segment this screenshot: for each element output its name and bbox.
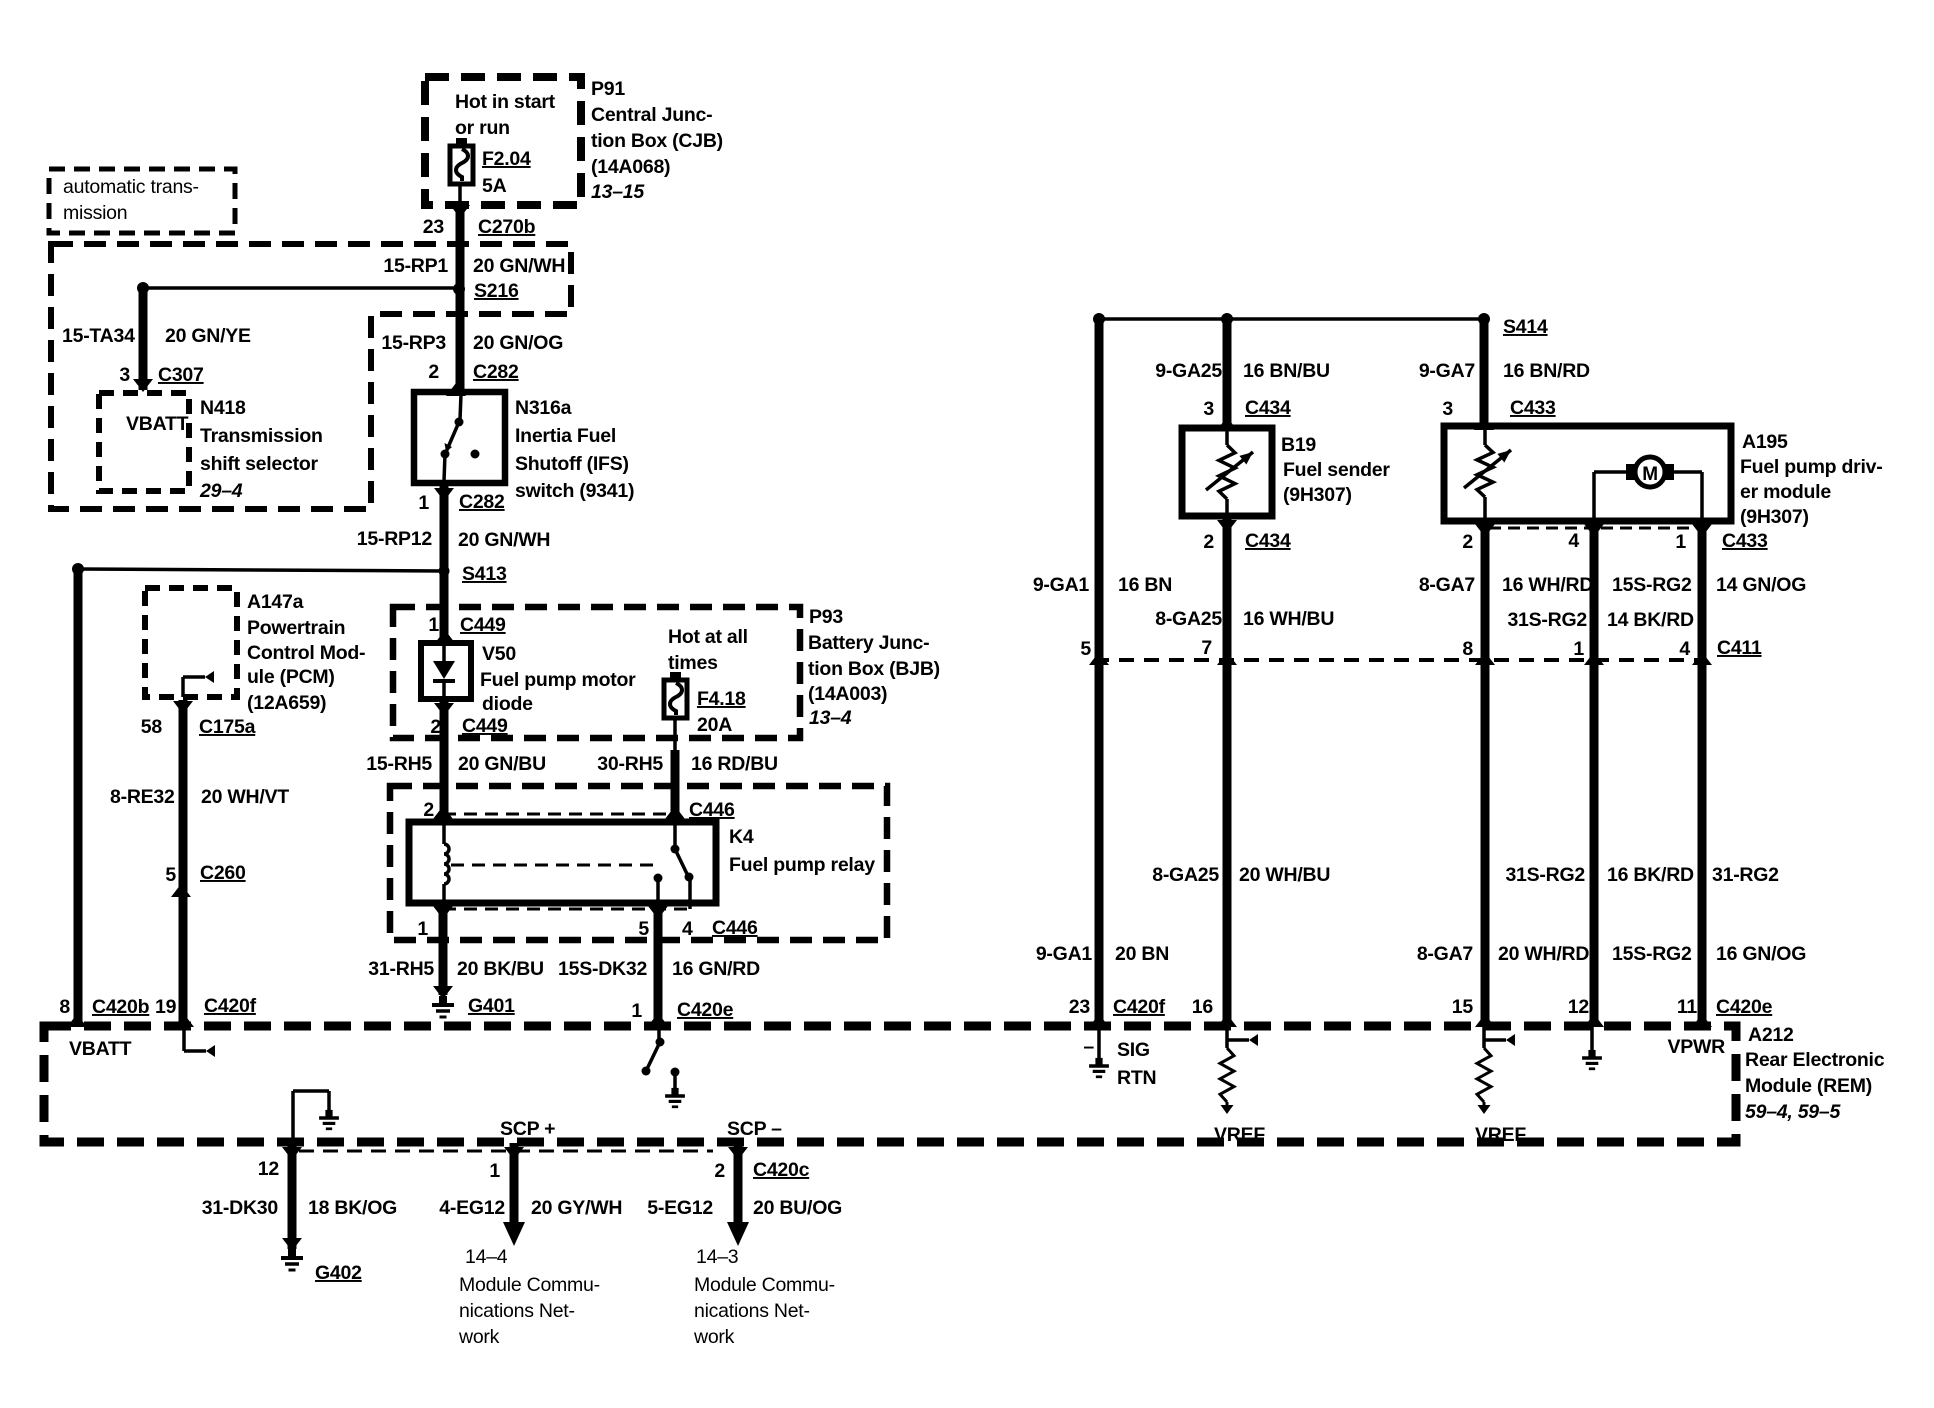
- splice S413: [439, 566, 450, 577]
- pins 2 4 1 connector C433 below A195: [1475, 524, 1495, 537]
- connector plane C411 (long dashed line): [1094, 658, 1706, 662]
- svg-text:15S-DK32: 15S-DK32: [558, 958, 647, 980]
- svg-text:20 BN: 20 BN: [1115, 943, 1169, 965]
- svg-text:S216: S216: [474, 280, 519, 302]
- svg-text:(9H307): (9H307): [1283, 484, 1352, 506]
- svg-text:3: 3: [1442, 398, 1453, 420]
- svg-text:C307: C307: [158, 364, 204, 386]
- svg-text:Transmission: Transmission: [200, 425, 323, 447]
- svg-text:N316a: N316a: [515, 397, 572, 419]
- svg-text:G401: G401: [468, 995, 515, 1017]
- svg-text:1: 1: [1573, 638, 1584, 660]
- svg-text:5: 5: [638, 918, 649, 940]
- svg-text:VBATT: VBATT: [69, 1038, 132, 1060]
- svg-text:work: work: [693, 1326, 735, 1348]
- svg-text:automatic trans-: automatic trans-: [63, 176, 199, 198]
- ground G402: [282, 1238, 302, 1251]
- svg-text:C270b: C270b: [478, 216, 536, 238]
- svg-text:4: 4: [1568, 530, 1579, 552]
- svg-text:K4: K4: [729, 826, 754, 848]
- svg-text:C434: C434: [1245, 530, 1291, 552]
- svg-text:9-GA1: 9-GA1: [1033, 574, 1090, 596]
- svg-text:C449: C449: [460, 614, 506, 636]
- wire 31-RG2 14 GN/OG 16 GN/OG to REM pin 11 VPWR: [1698, 521, 1707, 1026]
- svg-text:12: 12: [258, 1158, 280, 1180]
- svg-text:A147a: A147a: [247, 591, 304, 613]
- pin 2 connector C446 top of relay: [433, 806, 453, 819]
- svg-text:Fuel sender: Fuel sender: [1283, 459, 1390, 481]
- svg-text:15S-RG2: 15S-RG2: [1612, 574, 1692, 596]
- svg-text:20 WH/VT: 20 WH/VT: [201, 786, 289, 808]
- svg-text:C433: C433: [1510, 397, 1556, 419]
- inertia fuel shutoff switch N316a: [414, 392, 505, 483]
- svg-text:23: 23: [1069, 996, 1091, 1018]
- svg-text:8-GA7: 8-GA7: [1419, 574, 1475, 596]
- svg-text:9-GA7: 9-GA7: [1419, 360, 1475, 382]
- REM internal ground circuit for pin 12: [291, 1091, 295, 1143]
- svg-text:29–4: 29–4: [199, 480, 243, 502]
- svg-text:31S-RG2: 31S-RG2: [1505, 864, 1585, 886]
- svg-text:C420b: C420b: [92, 996, 150, 1018]
- svg-text:1: 1: [631, 1000, 642, 1022]
- svg-text:P91: P91: [591, 78, 625, 100]
- REM internal VREF resistor right: [1484, 1038, 1506, 1042]
- svg-text:C420e: C420e: [1716, 996, 1773, 1018]
- battery junction box P93 (dashed, relay): [390, 786, 887, 940]
- svg-text:A212: A212: [1748, 1024, 1794, 1046]
- svg-text:2: 2: [1203, 531, 1214, 553]
- svg-text:16 RD/BU: 16 RD/BU: [691, 753, 778, 775]
- svg-text:SCP –: SCP –: [727, 1118, 782, 1140]
- svg-text:16 WH/BU: 16 WH/BU: [1243, 608, 1334, 630]
- REM internal SIG RTN ground: [1097, 1026, 1101, 1062]
- svg-text:1: 1: [417, 918, 428, 940]
- svg-text:(14A068): (14A068): [591, 156, 670, 178]
- svg-text:Fuel pump driv-: Fuel pump driv-: [1740, 456, 1883, 478]
- svg-text:P93: P93: [809, 606, 843, 628]
- svg-text:2: 2: [714, 1160, 725, 1182]
- svg-text:F2.04: F2.04: [482, 148, 531, 170]
- svg-text:31-RH5: 31-RH5: [368, 958, 434, 980]
- svg-text:C420f: C420f: [204, 995, 257, 1017]
- svg-text:15-TA34: 15-TA34: [62, 325, 135, 347]
- svg-text:switch (9341): switch (9341): [515, 480, 634, 502]
- svg-text:SIG: SIG: [1117, 1039, 1150, 1061]
- connector plane C446 bottom (dashed): [443, 908, 690, 911]
- PCM internal flag symbol: [181, 677, 185, 697]
- svg-text:20A: 20A: [697, 714, 732, 736]
- pin 1 connector C282 below IFS: [434, 488, 454, 501]
- svg-text:tion Box (CJB): tion Box (CJB): [591, 130, 723, 152]
- svg-text:C282: C282: [473, 361, 519, 383]
- svg-text:8-GA25: 8-GA25: [1152, 864, 1219, 886]
- svg-text:20 WH/BU: 20 WH/BU: [1239, 864, 1330, 886]
- label box automatic transmission (dashed): [49, 169, 235, 233]
- svg-text:Module (REM): Module (REM): [1745, 1075, 1872, 1097]
- svg-text:C446: C446: [712, 917, 758, 939]
- svg-text:C282: C282: [459, 491, 505, 513]
- wire S413 to diode: [440, 572, 449, 643]
- A195 fuel pump motor M: [1635, 457, 1665, 487]
- connector C446 label top: [665, 806, 685, 819]
- wire 15S-RG2 14 BK/RD 16 BK/RD to REM pin 12: [1590, 521, 1599, 1026]
- svg-text:16: 16: [1192, 996, 1214, 1018]
- svg-text:16 BN/BU: 16 BN/BU: [1243, 360, 1330, 382]
- relay terminal 5 stub: [654, 874, 663, 883]
- svg-text:8: 8: [59, 996, 70, 1018]
- svg-text:or run: or run: [455, 117, 510, 139]
- svg-text:8-RE32: 8-RE32: [110, 786, 175, 808]
- svg-text:G402: G402: [315, 1262, 362, 1284]
- wire 9-GA25 16 BN/BU to fuel sender: [1223, 319, 1232, 430]
- fuel pump relay K4: [409, 822, 716, 903]
- svg-text:15-RH5: 15-RH5: [366, 753, 432, 775]
- svg-text:20 GY/WH: 20 GY/WH: [531, 1197, 622, 1219]
- svg-text:2: 2: [423, 799, 434, 821]
- svg-text:12: 12: [1568, 996, 1590, 1018]
- dashed group outline (automatic transmission circuit): [51, 244, 571, 509]
- pin 1 connector C420e: [648, 1013, 668, 1026]
- svg-text:S413: S413: [462, 563, 507, 585]
- connector plane C446 (dashed): [443, 813, 675, 816]
- svg-text:4: 4: [682, 918, 693, 940]
- svg-text:15-RP3: 15-RP3: [381, 332, 446, 354]
- svg-text:1: 1: [489, 1160, 500, 1182]
- svg-text:Module Commu-: Module Commu-: [694, 1274, 835, 1296]
- svg-text:5-EG12: 5-EG12: [647, 1197, 713, 1219]
- svg-text:Central Junc-: Central Junc-: [591, 104, 712, 126]
- pin 1 connector C446 bottom: [433, 906, 453, 919]
- svg-text:31-RG2: 31-RG2: [1712, 864, 1779, 886]
- wire 8-GA25 16 WH/BU / 20 WH/BU to REM pin 16: [1223, 516, 1232, 1026]
- svg-text:9-GA25: 9-GA25: [1155, 360, 1222, 382]
- svg-text:VREF: VREF: [1475, 1124, 1526, 1146]
- wire 31-RH5 20 BK/BU to G401: [439, 903, 448, 995]
- svg-text:work: work: [458, 1326, 500, 1348]
- svg-text:5: 5: [165, 864, 176, 886]
- svg-text:3: 3: [119, 364, 130, 386]
- svg-text:15S-RG2: 15S-RG2: [1612, 943, 1692, 965]
- wire 9-GA7 16 BN/RD to fuel pump driver module: [1480, 319, 1489, 430]
- svg-text:19: 19: [155, 996, 177, 1018]
- svg-text:59–4, 59–5: 59–4, 59–5: [1745, 1101, 1842, 1123]
- connector plane C433 below A195 (dashed): [1489, 527, 1588, 530]
- svg-text:Inertia Fuel: Inertia Fuel: [515, 425, 616, 447]
- wire 15S-DK32 16 GN/RD relay to REM: [648, 906, 668, 919]
- wire 8-GA7 16 WH/RD / 20 WH/RD to REM pin 15: [1481, 521, 1490, 1026]
- REM pin 19 internal flag: [182, 1026, 186, 1051]
- svg-text:15-RP1: 15-RP1: [383, 255, 448, 277]
- svg-text:11: 11: [1677, 996, 1698, 1018]
- svg-text:3: 3: [1203, 398, 1214, 420]
- svg-text:5A: 5A: [482, 175, 507, 197]
- svg-text:C175a: C175a: [199, 716, 256, 738]
- svg-text:(12A659): (12A659): [247, 692, 326, 714]
- svg-text:tion Box (BJB): tion Box (BJB): [808, 658, 940, 680]
- pin 58 connector C175a: [173, 701, 193, 714]
- wire 15-RP1 20 GN/WH from fuse to S216: [458, 183, 462, 207]
- svg-text:20 WH/RD: 20 WH/RD: [1498, 943, 1589, 965]
- svg-text:16 GN/RD: 16 GN/RD: [672, 958, 760, 980]
- splice S414 bus wire: [1099, 317, 1484, 321]
- svg-text:C434: C434: [1245, 397, 1291, 419]
- powertrain control module A147a (dashed box): [145, 588, 237, 697]
- svg-text:16 BK/RD: 16 BK/RD: [1607, 864, 1694, 886]
- svg-text:F4.18: F4.18: [697, 688, 746, 710]
- relay mechanical link (dashed): [451, 864, 655, 867]
- svg-text:14 GN/OG: 14 GN/OG: [1716, 574, 1806, 596]
- svg-text:Module Commu-: Module Commu-: [459, 1274, 600, 1296]
- svg-text:C420c: C420c: [753, 1159, 810, 1181]
- svg-text:14–4: 14–4: [465, 1246, 508, 1268]
- A195 sender resistor: [1483, 426, 1487, 445]
- svg-text:Control Mod-: Control Mod-: [247, 642, 365, 664]
- fuel pump motor diode V50: [421, 643, 471, 699]
- svg-text:Hot in start: Hot in start: [455, 91, 556, 113]
- svg-text:er module: er module: [1740, 481, 1831, 503]
- svg-text:VBATT: VBATT: [126, 413, 189, 435]
- svg-text:4-EG12: 4-EG12: [439, 1197, 505, 1219]
- svg-text:2: 2: [428, 361, 439, 383]
- svg-text:13–15: 13–15: [591, 181, 645, 203]
- svg-text:M: M: [1642, 464, 1658, 485]
- svg-text:16 GN/OG: 16 GN/OG: [1716, 943, 1806, 965]
- relay coil: [442, 822, 446, 844]
- wire 15-RP12 20 GN/WH from IFS to S413: [440, 483, 449, 572]
- svg-text:15-RP12: 15-RP12: [357, 528, 433, 550]
- svg-text:S414: S414: [1503, 316, 1548, 338]
- svg-text:23: 23: [423, 216, 445, 238]
- wire VBATT to REM pin 8: [74, 569, 83, 1026]
- svg-text:C411: C411: [1717, 637, 1762, 659]
- svg-text:31S-RG2: 31S-RG2: [1507, 609, 1587, 631]
- svg-text:4: 4: [1679, 638, 1690, 660]
- svg-text:A195: A195: [1742, 431, 1788, 453]
- svg-text:5: 5: [1080, 638, 1091, 660]
- svg-text:C420e: C420e: [677, 999, 734, 1021]
- svg-text:16 BN/RD: 16 BN/RD: [1503, 360, 1590, 382]
- fuel pump driver module A195: [1444, 426, 1731, 521]
- svg-text:C446: C446: [689, 799, 735, 821]
- svg-text:31-DK30: 31-DK30: [202, 1197, 279, 1219]
- pin 2 connector C449 below diode: [434, 703, 454, 716]
- svg-text:20 GN/WH: 20 GN/WH: [458, 529, 550, 551]
- svg-text:B19: B19: [1281, 434, 1316, 456]
- svg-text:times: times: [668, 652, 718, 674]
- wire 15-RH5 20 GN/BU: [440, 699, 449, 824]
- svg-text:C433: C433: [1722, 530, 1768, 552]
- svg-text:(14A003): (14A003): [808, 683, 887, 705]
- connector plane C420c (dashed): [299, 1150, 713, 1153]
- svg-text:Powertrain: Powertrain: [247, 617, 345, 639]
- wire from S413 to VBATT branch: [78, 569, 444, 571]
- svg-text:Fuel pump motor: Fuel pump motor: [480, 669, 636, 691]
- svg-text:20 BK/BU: 20 BK/BU: [457, 958, 544, 980]
- svg-text:20 GN/YE: 20 GN/YE: [165, 325, 251, 347]
- svg-text:15: 15: [1452, 996, 1474, 1018]
- wire 31-DK30 18 BK/OG to G402: [282, 1147, 302, 1160]
- svg-text:Shutoff (IFS): Shutoff (IFS): [515, 453, 629, 475]
- svg-text:N418: N418: [200, 397, 246, 419]
- REM internal VREF resistor left: [1227, 1038, 1249, 1042]
- svg-text:diode: diode: [482, 693, 533, 715]
- svg-text:30-RH5: 30-RH5: [597, 753, 663, 775]
- svg-text:1: 1: [428, 614, 439, 636]
- pin 2 connector C434 below sender: [1217, 520, 1237, 533]
- svg-text:18 BK/OG: 18 BK/OG: [308, 1197, 397, 1219]
- splice S216: [143, 286, 457, 290]
- svg-text:20 BU/OG: 20 BU/OG: [753, 1197, 842, 1219]
- relay switch: [673, 822, 677, 848]
- svg-text:–: –: [1083, 1036, 1094, 1058]
- svg-text:shift selector: shift selector: [200, 453, 319, 475]
- rear electronic module A212 (dashed box): [44, 1026, 1736, 1142]
- fuel sender B19: [1182, 428, 1272, 516]
- svg-text:7: 7: [1201, 637, 1212, 659]
- svg-text:9-GA1: 9-GA1: [1036, 943, 1093, 965]
- svg-text:20 GN/OG: 20 GN/OG: [473, 332, 563, 354]
- fuse F4.18 20A: [670, 672, 681, 681]
- svg-text:C449: C449: [462, 715, 508, 737]
- svg-text:14–3: 14–3: [696, 1246, 738, 1268]
- svg-text:16 BN: 16 BN: [1118, 574, 1172, 596]
- transmission shift selector N418 (dashed box): [99, 393, 189, 491]
- wire 9-GA1 16 BN / 20 BN to REM pin 23: [1095, 319, 1104, 1026]
- svg-text:20 GN/WH: 20 GN/WH: [473, 255, 565, 277]
- wire 8-RE32 20 WH/VT: [179, 700, 188, 1026]
- svg-text:13–4: 13–4: [809, 707, 852, 729]
- REM internal ground at pin 12: [1590, 1026, 1594, 1054]
- svg-text:8: 8: [1462, 638, 1473, 660]
- svg-text:16 WH/RD: 16 WH/RD: [1502, 574, 1593, 596]
- svg-text:VREF: VREF: [1214, 1124, 1265, 1146]
- svg-text:20 GN/BU: 20 GN/BU: [458, 753, 546, 775]
- svg-text:V50: V50: [482, 643, 516, 665]
- svg-text:C420f: C420f: [1113, 996, 1166, 1018]
- svg-text:VPWR: VPWR: [1668, 1036, 1726, 1058]
- svg-text:Rear Electronic: Rear Electronic: [1745, 1049, 1885, 1071]
- battery junction box P93 (dashed, diode/fuse): [393, 607, 800, 738]
- svg-text:Battery Junc-: Battery Junc-: [808, 632, 929, 654]
- svg-text:mission: mission: [63, 202, 127, 224]
- ground G401: [433, 986, 453, 999]
- svg-text:(9H307): (9H307): [1740, 506, 1809, 528]
- svg-text:SCP +: SCP +: [500, 1118, 555, 1140]
- central junction box P91 (dashed): [425, 77, 581, 205]
- svg-text:1: 1: [1675, 531, 1686, 553]
- REM internal ground at switch: [671, 1068, 680, 1077]
- svg-text:ule (PCM): ule (PCM): [247, 666, 335, 688]
- REM internal switch at C420e: [657, 1026, 661, 1041]
- svg-text:8-GA25: 8-GA25: [1155, 608, 1222, 630]
- svg-text:RTN: RTN: [1117, 1067, 1156, 1089]
- wire 15-TA34 20 GN/YE: [139, 288, 148, 390]
- pin 1 connector C449: [435, 630, 455, 643]
- svg-text:nications Net-: nications Net-: [694, 1300, 810, 1322]
- svg-text:Hot at all: Hot at all: [668, 626, 748, 648]
- svg-text:58: 58: [141, 716, 163, 738]
- fuse F2.04 5A: [456, 138, 467, 147]
- svg-text:8-GA7: 8-GA7: [1417, 943, 1473, 965]
- svg-text:1: 1: [418, 492, 429, 514]
- svg-text:14 BK/RD: 14 BK/RD: [1607, 609, 1694, 631]
- pin 5 connector C260: [171, 884, 191, 897]
- svg-text:Fuel pump relay: Fuel pump relay: [729, 854, 875, 876]
- svg-text:C260: C260: [200, 862, 246, 884]
- wire 30-RH5 16 RD/BU: [673, 718, 677, 754]
- svg-text:nications Net-: nications Net-: [459, 1300, 575, 1322]
- svg-text:2: 2: [1462, 531, 1473, 553]
